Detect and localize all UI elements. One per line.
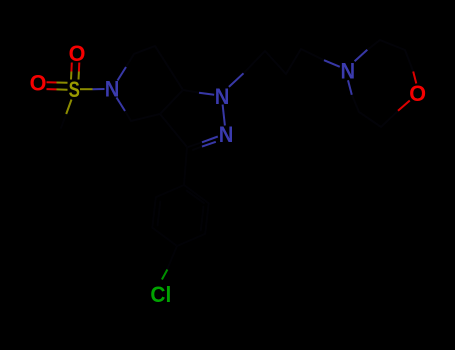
svg-text:N: N: [215, 84, 230, 109]
svg-text:N: N: [340, 58, 355, 83]
svg-text:O: O: [69, 40, 86, 66]
svg-text:Cl: Cl: [150, 281, 171, 307]
svg-text:O: O: [409, 80, 426, 106]
svg-text:N: N: [219, 122, 234, 147]
svg-text:S: S: [69, 78, 80, 103]
svg-text:N: N: [105, 76, 120, 101]
svg-text:O: O: [30, 70, 47, 96]
